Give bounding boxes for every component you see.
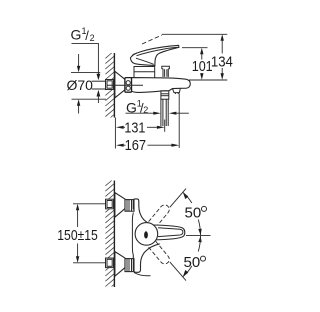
svg-text:2: 2 xyxy=(90,33,95,43)
svg-text:131: 131 xyxy=(124,119,145,136)
svg-text:101: 101 xyxy=(192,58,213,75)
svg-text:/: / xyxy=(85,28,89,43)
svg-text:Ø70: Ø70 xyxy=(67,77,94,93)
svg-text:50: 50 xyxy=(184,254,201,271)
svg-text:167: 167 xyxy=(125,137,147,154)
svg-text:134: 134 xyxy=(211,53,233,70)
svg-text:150±15: 150±15 xyxy=(57,227,98,244)
svg-text:G: G xyxy=(71,27,82,43)
svg-text:50: 50 xyxy=(185,204,202,221)
